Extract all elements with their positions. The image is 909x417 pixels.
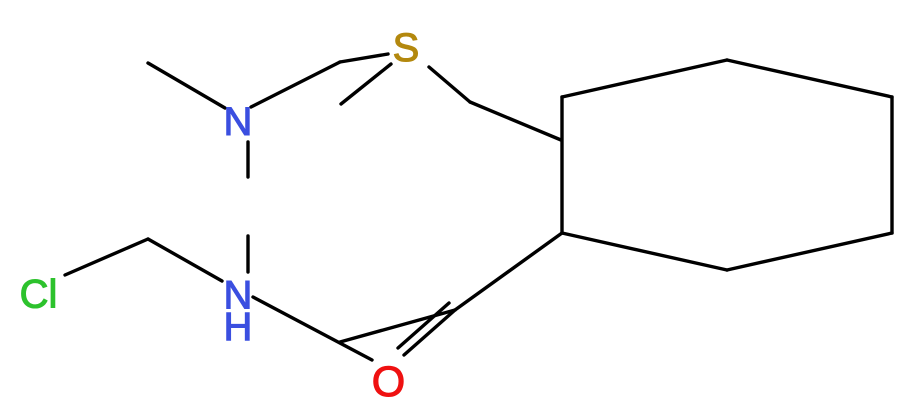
svg-text:O: O (372, 358, 405, 406)
svg-text:Cl: Cl (20, 273, 58, 317)
svg-text:S: S (393, 26, 420, 70)
svg-text:N: N (224, 100, 253, 144)
svg-text:H: H (224, 305, 253, 349)
